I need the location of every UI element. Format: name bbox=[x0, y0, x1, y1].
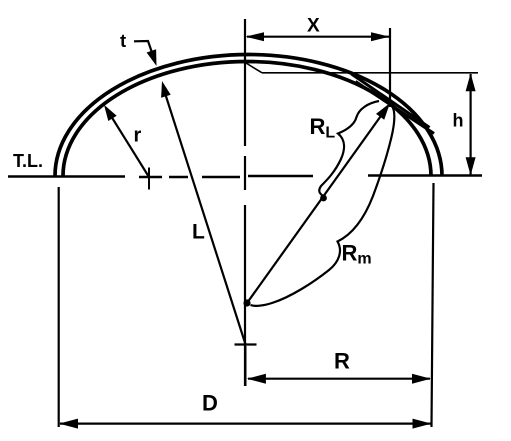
dimension h line bbox=[470, 74, 472, 175]
witness line left (head OD) bbox=[58, 187, 60, 427]
brace for R_m bbox=[251, 106, 395, 306]
svg-text:R: R bbox=[334, 349, 350, 374]
radius L leader line bbox=[164, 89, 246, 345]
radius r leader line bbox=[106, 108, 150, 178]
mid dot on R_m line bbox=[320, 195, 327, 202]
witness line right (head OD) bbox=[432, 183, 434, 427]
arrowhead D right bbox=[413, 419, 432, 429]
svg-text:D: D bbox=[202, 391, 218, 416]
arrowhead X right bbox=[371, 32, 390, 41]
arrowhead R_m line bbox=[376, 103, 390, 120]
arrowhead t bbox=[147, 49, 157, 66]
apex connector line bbox=[246, 63, 262, 73]
crown-radius center cross (bottom) bbox=[235, 343, 257, 345]
svg-text:r: r bbox=[134, 125, 142, 147]
arrowhead D left bbox=[59, 419, 78, 429]
vertical centerline bbox=[244, 19, 246, 386]
dimension D line bbox=[60, 423, 431, 425]
svg-text:X: X bbox=[307, 16, 320, 37]
svg-text:h: h bbox=[453, 111, 464, 131]
outer head profile arc bbox=[55, 54, 442, 176]
inner head profile arc bbox=[63, 62, 431, 176]
svg-text:L: L bbox=[192, 221, 205, 244]
arrowhead h bottom bbox=[466, 157, 476, 175]
tangent line T.L. (horizontal dashed) bbox=[8, 176, 482, 178]
knuckle-radius center cross (on T.L.) bbox=[148, 168, 150, 190]
arrowhead R right bbox=[412, 374, 431, 384]
top reference line for h bbox=[262, 72, 478, 74]
arrowhead h top bbox=[466, 73, 476, 91]
dimension R line bbox=[248, 378, 430, 380]
brace for R_L bbox=[319, 101, 379, 197]
arrowhead r bbox=[104, 105, 117, 121]
witness centerline below cross bbox=[244, 346, 246, 386]
svg-text:T.L.: T.L. bbox=[13, 151, 43, 171]
arrowhead L bbox=[161, 81, 171, 98]
arrowhead R left bbox=[247, 374, 266, 384]
svg-text:t: t bbox=[120, 30, 126, 51]
dimension X line bbox=[247, 36, 389, 38]
knuckle tangent construction line upper bbox=[352, 74, 430, 128]
radius R_m arrow line bbox=[247, 106, 388, 303]
thickness t leader bbox=[134, 41, 154, 57]
knuckle tangent construction line lower bbox=[356, 82, 435, 134]
arrowhead X left bbox=[246, 32, 265, 41]
center dot on centerline bbox=[243, 299, 250, 306]
witness line for X (tangency point) bbox=[389, 28, 391, 107]
